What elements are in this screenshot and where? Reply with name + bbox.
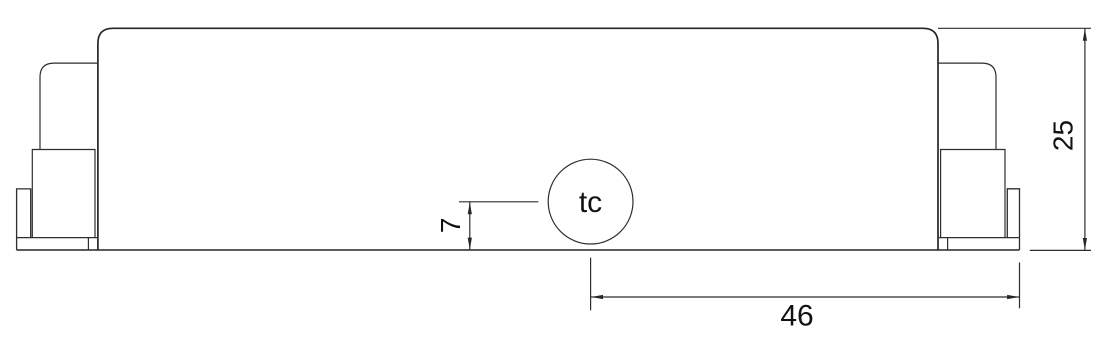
svg-text:7: 7 [435, 218, 466, 234]
svg-text:25: 25 [1048, 120, 1079, 151]
svg-text:46: 46 [780, 300, 813, 333]
svg-text:tc: tc [579, 186, 602, 219]
